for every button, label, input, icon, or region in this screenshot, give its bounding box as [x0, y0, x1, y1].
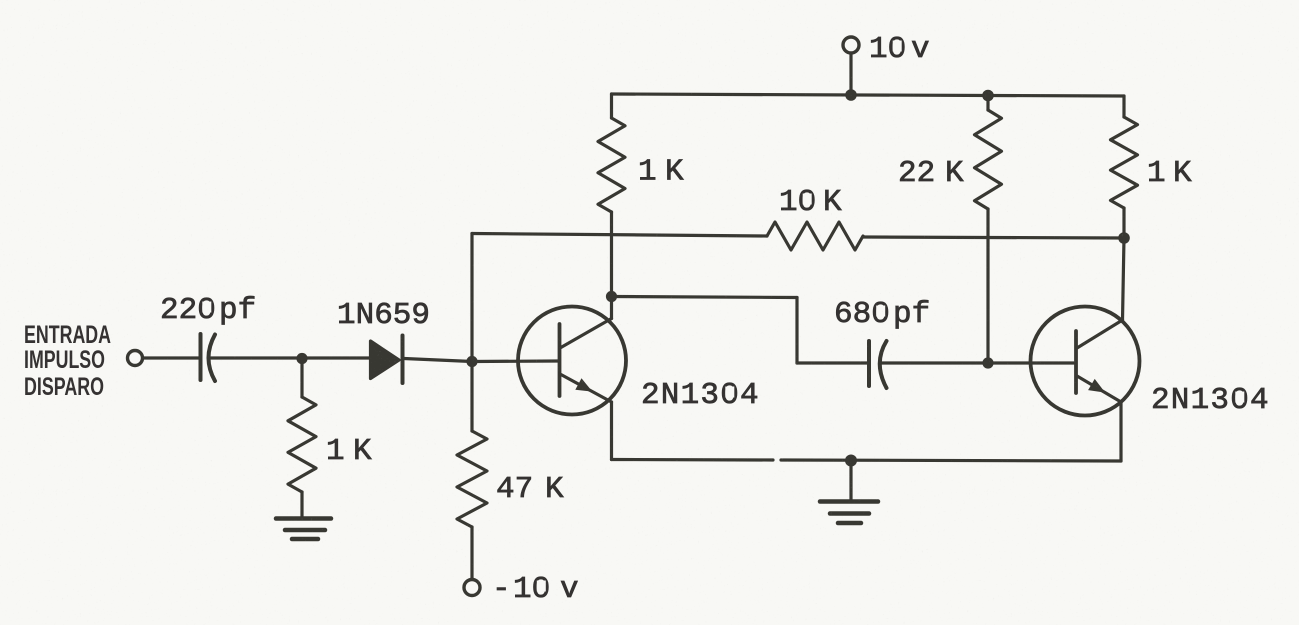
wire node C to corner (680pf branch) — [612, 297, 798, 298]
value label 1 K (R5) — [1147, 156, 1192, 191]
wire C1 to node A — [211, 356, 302, 359]
wire R2 to +10v rail corner — [610, 94, 613, 118]
zero counter patches (decorative) — [202, 41, 1244, 592]
capacitor C1 220pf right plate — [209, 335, 216, 382]
node F junction dot (Q2 base) — [982, 357, 993, 368]
wire node B down to R6 — [470, 362, 473, 432]
transistor Q2 base bar — [1074, 331, 1078, 393]
capacitor C2 680pf left plate — [867, 341, 871, 386]
wire node C up through 10K wire to R2 — [610, 212, 613, 297]
value label 10 K — [779, 185, 842, 220]
resistor R2 1K (Q1 collector load) — [598, 118, 625, 212]
transistor Q1 emitter arrow — [575, 378, 592, 391]
wire rail to R4 22K — [986, 96, 989, 111]
wire R4 down to node F (Q2 base net) — [986, 209, 989, 363]
value label 220 pf — [160, 293, 256, 328]
wire 10v terminal to rail — [849, 54, 852, 96]
resistor R6 47K — [457, 431, 487, 527]
wire R6 to -10v terminal — [470, 527, 473, 579]
value label 10 v — [869, 32, 930, 67]
transistor Q1 circle — [518, 307, 626, 415]
wire node B up to 10K net — [470, 234, 473, 362]
transistor Q1 emitter diagonal — [560, 374, 612, 402]
value label 47 K — [496, 472, 564, 507]
wire corner to C2 — [797, 361, 868, 364]
node A junction dot — [296, 353, 307, 364]
wire top horizontal to R3 10K — [472, 234, 767, 237]
wire node B to Q1 base — [472, 359, 558, 363]
input terminal — [128, 351, 143, 366]
node D junction dot (10v on rail) — [845, 89, 857, 101]
resistor R3 10K — [767, 222, 863, 250]
label ENTRADA IMPULSO DISPARO — [24, 321, 111, 401]
node G junction dot (Q2 collector) — [1118, 232, 1130, 244]
node B junction dot — [466, 356, 477, 367]
transistor Q1 base bar — [558, 324, 562, 396]
+10v supply rail — [612, 94, 1125, 96]
resistor R5 1K (Q2 collector load) — [1111, 117, 1138, 208]
wire R5 to node G — [1122, 208, 1125, 238]
wire D1 to node B — [404, 359, 472, 362]
capacitor C1 220pf left plate — [199, 334, 203, 380]
wire Q1 emitter down to ground rail — [610, 402, 613, 460]
transistor Q1 collector diagonal — [560, 319, 612, 349]
wire Q1 collector up to node C — [610, 297, 613, 319]
value label 1 K (R2) — [638, 155, 684, 190]
wire C2 to node F — [881, 361, 988, 364]
diode D1 cathode bar — [401, 336, 405, 384]
transistor Q2 circle — [1031, 307, 1140, 416]
resistor R4 22K — [975, 110, 1002, 209]
wire Q2 emitter down to ground rail — [1119, 402, 1122, 461]
terminal -10v — [464, 580, 480, 596]
diode D1 1N659 triangle — [371, 341, 400, 379]
wire rail corner down to R5 — [1122, 96, 1125, 117]
ground stem — [849, 461, 852, 500]
ground (main) — [820, 502, 878, 524]
transistor Q2 collector diagonal — [1077, 320, 1123, 348]
node C junction dot (Q1 collector) — [606, 291, 617, 302]
value label 1 K (R1) — [326, 434, 372, 469]
node H junction dot (ground) — [845, 455, 857, 467]
value label 22 K — [898, 156, 964, 191]
wire node A down to R1 — [300, 358, 303, 397]
transistor Q2 emitter diagonal — [1077, 376, 1121, 402]
wire input terminal to C1 — [144, 356, 200, 359]
capacitor C2 680pf right plate — [880, 341, 887, 388]
ground rail (right part) — [781, 460, 1121, 461]
wire corner down to C2 level — [795, 298, 798, 364]
transistor Q2 emitter arrow — [1088, 379, 1105, 393]
terminal 10v — [843, 37, 859, 53]
node E junction dot (22K top) — [982, 90, 994, 102]
wire R1 to ground — [300, 492, 303, 517]
wire node F to Q2 base — [988, 361, 1074, 364]
ground rail (left part) — [612, 458, 774, 462]
resistor R1 1K — [288, 397, 316, 492]
ground (input side) — [276, 519, 331, 540]
value label 680 pf — [834, 297, 930, 332]
wire R3 to node G — [863, 237, 1124, 238]
value label -10 v — [492, 572, 579, 607]
wire Q2 collector up to node G — [1123, 238, 1125, 320]
wire node A to diode D1 — [302, 356, 369, 359]
